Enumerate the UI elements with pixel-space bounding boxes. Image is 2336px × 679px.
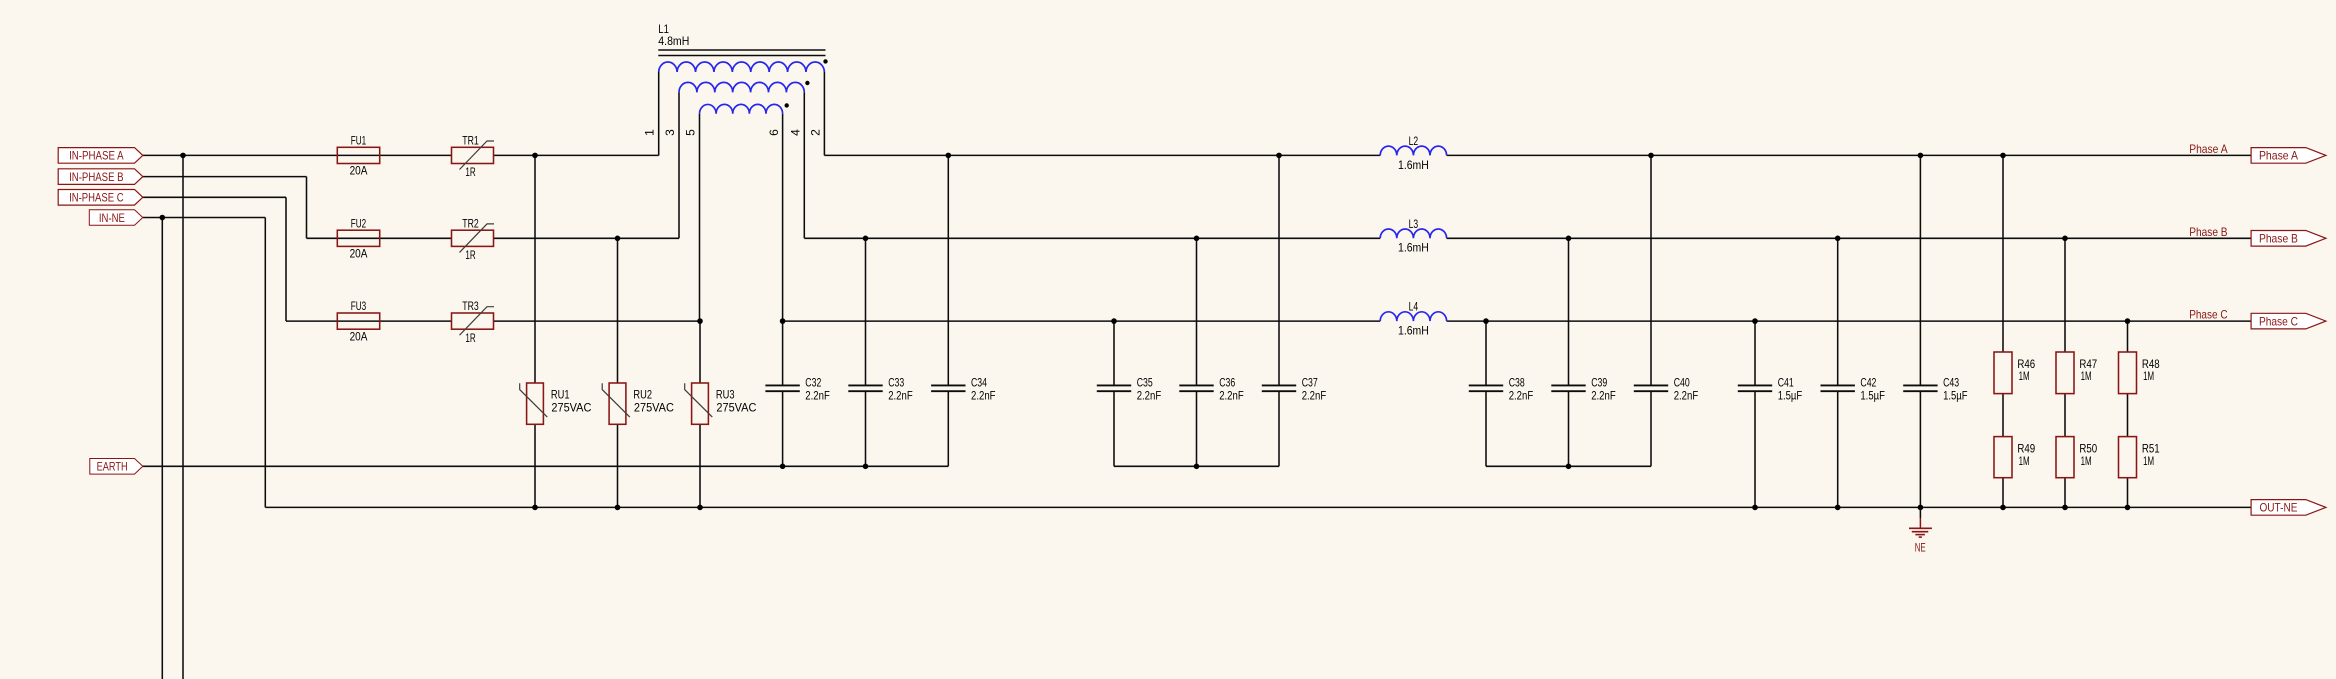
wire C36 bottom lead [1196,391,1198,466]
junction C39/star bus [1566,464,1572,470]
svg-text:2.2nF: 2.2nF [1509,388,1534,402]
L1 polarity dot winding 1-2 [823,59,827,63]
svg-text:C38: C38 [1509,376,1525,390]
wire IN-PHASE B vertical drop [306,177,308,239]
junction L1 pin5/RU3/row C [697,318,703,324]
svg-text:C43: C43 [1943,376,1959,390]
fuse FU1 20A [337,147,379,163]
wire off-sheet vertical from IN-NE junction [161,218,163,679]
wire L1 pin 4 to L3 (row B right) [804,237,1380,239]
svg-text:1R: 1R [465,331,476,345]
wire C42 bottom lead [1837,391,1839,507]
wire L1 pin 2 lead [823,72,825,155]
junction row A off-sheet tap [180,153,186,159]
svg-text:IN-PHASE C: IN-PHASE C [69,191,124,205]
svg-text:Phase C: Phase C [2189,308,2228,322]
svg-text:Phase C: Phase C [2259,314,2298,328]
L1 core line 2 [658,55,825,57]
svg-text:4: 4 [788,129,802,136]
L1 winding 1-2 [659,62,825,72]
wire L1 pin 5 lead [699,114,701,321]
svg-text:C42: C42 [1860,376,1876,390]
svg-text:20A: 20A [350,164,368,178]
wire RU1 top lead [534,155,536,383]
wire TR3 to L1 pin 5 node (row C) [494,320,701,322]
wire R49 bottom lead [2002,478,2004,508]
svg-text:FU2: FU2 [351,216,367,230]
junction C42/neutral bus [1835,505,1841,511]
wire C39 top lead [1568,238,1570,385]
inductor L1 common-mode choke 4.8mH [643,22,828,136]
junction R49/neutral bus [2000,505,2006,511]
svg-text:2.2nF: 2.2nF [1302,388,1327,402]
capacitor C33 2.2nF [848,384,882,386]
wire C37 bottom lead [1278,391,1280,466]
junction R51/neutral bus [2125,505,2131,511]
capacitor C32 2.2nF [765,384,799,386]
wire C35 top lead [1113,321,1115,385]
wire R48 to R51 link [2127,394,2129,437]
wire C40 bottom lead [1650,391,1652,466]
junction C39/row B [1566,236,1572,242]
thermistor TR2 1R [452,230,494,246]
svg-text:IN-PHASE A: IN-PHASE A [69,149,124,163]
svg-text:1M: 1M [2019,454,2030,468]
svg-text:1.6mH: 1.6mH [1398,158,1429,172]
resistor R51 1M [2119,437,2137,478]
svg-text:2.2nF: 2.2nF [1674,388,1699,402]
svg-text:1M: 1M [2081,454,2092,468]
capacitor C36 2.2nF [1179,384,1213,386]
svg-text:FU1: FU1 [351,133,367,147]
svg-text:OUT-NE: OUT-NE [2259,501,2297,515]
junction C36/star bus [1194,464,1200,470]
varistor RU2 275VAC [609,383,626,424]
ground NE (earth symbol) [1919,507,1921,518]
svg-text:RU1: RU1 [551,387,570,401]
L1 winding 5-6 [700,104,783,113]
svg-text:1.5µF: 1.5µF [1860,388,1885,402]
junction R46/row A [2000,153,2006,159]
svg-text:C39: C39 [1591,376,1607,390]
svg-text:C37: C37 [1302,376,1318,390]
wire L1 pin 3 lead [678,92,680,238]
resistor R46 1M [1994,352,2012,394]
svg-text:C32: C32 [805,376,821,390]
svg-text:C33: C33 [888,376,904,390]
junction C34/row A [946,153,952,159]
wire C33 bottom lead [865,391,867,466]
hierarchical label IN-PHASE A [58,148,143,164]
svg-text:1.6mH: 1.6mH [1398,241,1429,255]
junction RU1/row A [532,153,538,159]
RU1 diagonal stroke [520,383,548,417]
wire star bus C35-C37 [1114,465,1279,467]
hierarchical label Phase A output [2251,148,2326,164]
wire off-sheet vertical from row A junction [182,155,184,679]
wire C43 bottom lead [1919,391,1921,507]
wire C32 top lead [782,321,784,385]
svg-text:2: 2 [808,129,822,136]
svg-text:L2: L2 [1409,134,1419,148]
inductor L4 1.6mH [1380,312,1446,321]
resistor R47 1M [2056,352,2074,394]
wire R50 bottom lead [2064,478,2066,508]
junction R48/row C [2125,318,2131,324]
junction C32/earth bus [780,464,786,470]
wire C34 top lead [947,155,949,385]
wire C41 bottom lead [1754,391,1756,507]
wire C41 top lead [1754,321,1756,385]
wire L2 to Phase A label (row A far right) [1447,154,2252,156]
svg-text:C40: C40 [1674,376,1690,390]
wire C39 bottom lead [1568,391,1570,466]
junction L1 pin6/C32/row C [780,318,786,324]
L1 polarity dot winding 3-4 [805,81,809,85]
thermistor TR1 1R [452,147,494,163]
wire C38 top lead [1485,321,1487,385]
capacitor C41 1.5µF [1738,384,1772,386]
resistor R48 1M [2119,352,2137,394]
L1 core line 1 [658,49,825,51]
svg-text:20A: 20A [350,329,368,343]
fuse FU2 20A [337,230,379,246]
svg-text:C34: C34 [971,376,987,390]
svg-text:2.2nF: 2.2nF [1219,388,1244,402]
wire R47 to R50 link [2064,394,2066,437]
junction RU2/neutral bus [615,505,621,511]
wire IN-PHASE A to FU1/TR1 (row A left) [143,154,452,156]
svg-text:Phase A: Phase A [2259,149,2298,163]
inductor L3 1.6mH [1380,229,1446,238]
wire RU2 bottom lead [617,424,619,507]
svg-text:L4: L4 [1409,300,1419,314]
svg-text:2.2nF: 2.2nF [1591,388,1616,402]
wire R46 to R49 link [2002,394,2004,437]
capacitor C40 2.2nF [1634,384,1668,386]
wire L4 to Phase C label (row C far right) [1447,320,2252,322]
TR1 diagonal stroke [460,141,495,170]
wire RU3 top lead [699,321,701,383]
resistor R49 1M [1994,437,2012,478]
wire C38 bottom lead [1485,391,1487,466]
junction C33/row B [863,236,869,242]
wire C33 top lead [865,238,867,385]
wire R47 top lead [2064,238,2066,352]
capacitor C39 2.2nF [1551,384,1585,386]
wire L1 pin 1 lead [658,72,660,155]
wire to FU2/TR2 (row B left) [307,237,452,239]
capacitor C42 1.5µF [1821,384,1855,386]
wire RU1 bottom lead [534,424,536,507]
wire L1 pin 4 lead [803,92,805,238]
svg-text:RU3: RU3 [716,387,735,401]
wire C32 bottom lead [782,391,784,466]
svg-text:275VAC: 275VAC [551,400,591,414]
hierarchical label IN-NE [89,210,143,226]
hierarchical label IN-PHASE B [58,169,143,185]
junction IN-NE off-sheet tap [160,215,166,221]
svg-text:6: 6 [767,129,781,136]
wire C37 top lead [1278,155,1280,385]
RU3 diagonal stroke [685,383,713,417]
wire C35 bottom lead [1113,391,1115,466]
svg-text:1R: 1R [465,165,476,179]
wire R51 bottom lead [2127,478,2129,508]
capacitor C37 2.2nF [1262,384,1296,386]
wire R48 top lead [2127,321,2129,352]
svg-text:C35: C35 [1137,376,1153,390]
wire L1 pin 6 node to L4 (row C right) [783,320,1381,322]
svg-text:1.5µF: 1.5µF [1778,388,1803,402]
wire C40 top lead [1650,155,1652,385]
svg-text:EARTH: EARTH [97,460,128,474]
junction C42/row B [1835,236,1841,242]
wire TR1 to L1 pin 1 (row A) [494,154,659,156]
wire L3 to Phase B label (row B far right) [1447,237,2252,239]
wire C42 top lead [1837,238,1839,385]
svg-text:NE: NE [1915,541,1926,555]
hierarchical label Phase C output [2251,313,2326,329]
svg-text:20A: 20A [350,247,368,261]
TR2 diagonal stroke [460,224,495,253]
resistor R50 1M [2056,437,2074,478]
junction C35/row C [1111,318,1117,324]
wire IN-PHASE C vertical drop [285,197,287,321]
svg-text:275VAC: 275VAC [716,400,756,414]
junction C40/row A [1648,153,1654,159]
capacitor C35 2.2nF [1097,384,1131,386]
junction R50/neutral bus [2062,505,2068,511]
wire to FU3/TR3 (row C left) [286,320,452,322]
svg-text:Phase B: Phase B [2189,225,2227,239]
svg-text:275VAC: 275VAC [634,400,674,414]
svg-text:TR2: TR2 [462,216,479,230]
capacitor C34 2.2nF [931,384,965,386]
capacitor C43 1.5µF [1903,384,1937,386]
capacitor C38 2.2nF [1469,384,1503,386]
svg-text:1.6mH: 1.6mH [1398,324,1429,338]
wire IN-NE vertical drop to neutral bus [264,218,266,508]
svg-text:Phase B: Phase B [2259,232,2298,246]
svg-text:IN-PHASE B: IN-PHASE B [69,170,124,184]
svg-text:2.2nF: 2.2nF [805,388,830,402]
svg-text:TR1: TR1 [462,133,479,147]
thermistor TR3 1R [452,313,494,329]
svg-text:TR3: TR3 [462,299,479,313]
wire C36 top lead [1196,238,1198,385]
wire IN-PHASE B horizontal stub [143,176,307,178]
wire TR2 to L1 pin 3 (row B) [494,237,680,239]
junction C33/earth bus [863,464,869,470]
junction C43/row A [1918,153,1924,159]
junction RU3/neutral bus [697,505,703,511]
wire C34 bottom lead [947,391,949,466]
wire neutral bus to OUT-NE label [265,506,2251,508]
svg-text:2.2nF: 2.2nF [1137,388,1162,402]
wire RU2 top lead [617,238,619,383]
junction R47/row B [2062,236,2068,242]
wire C43 top lead [1919,155,1921,385]
svg-text:IN-NE: IN-NE [99,211,125,225]
L1 winding 3-4 [679,82,804,92]
svg-text:1: 1 [643,129,657,136]
svg-text:C41: C41 [1778,376,1794,390]
hierarchical label Phase B output [2251,231,2326,247]
wire RU3 bottom lead [699,424,701,507]
junction RU2/row B [615,236,621,242]
svg-text:L3: L3 [1409,217,1419,231]
hierarchical label IN-PHASE C [58,190,143,206]
wire IN-PHASE C horizontal stub [143,196,286,198]
svg-text:5: 5 [684,129,698,136]
svg-text:1M: 1M [2081,369,2092,383]
junction C41/row C [1752,318,1758,324]
junction C43-NE/neutral bus [1918,505,1924,511]
wire L1 pin 6 lead [782,114,784,321]
junction C37/row A [1276,153,1282,159]
svg-text:C36: C36 [1219,376,1235,390]
junction C36/row B [1194,236,1200,242]
wire EARTH bus to C34 [143,465,949,467]
TR3 diagonal stroke [460,307,495,336]
junction RU1/neutral bus [532,505,538,511]
wire R46 top lead [2002,155,2004,352]
RU2 diagonal stroke [602,383,630,417]
svg-text:1.5µF: 1.5µF [1943,388,1968,402]
svg-text:RU2: RU2 [633,387,652,401]
svg-text:1R: 1R [465,248,476,262]
svg-text:2.2nF: 2.2nF [888,388,913,402]
varistor RU3 275VAC [692,383,709,424]
junction C38/row C [1483,318,1489,324]
svg-text:1M: 1M [2019,369,2030,383]
wire L1 pin 2 to L2 (row A right) [824,154,1380,156]
hierarchical label OUT-NE output [2251,500,2326,516]
varistor RU1 275VAC [527,383,544,424]
fuse FU3 20A [337,313,379,329]
svg-text:Phase A: Phase A [2189,142,2227,156]
junction C41/neutral bus [1752,505,1758,511]
svg-text:1M: 1M [2143,369,2154,383]
svg-text:4.8mH: 4.8mH [658,34,689,48]
svg-text:1M: 1M [2143,454,2154,468]
L1 polarity dot winding 5-6 [785,103,789,107]
hierarchical label EARTH [90,459,143,475]
wire star bus C38-C40 [1486,465,1651,467]
svg-text:3: 3 [663,129,677,136]
svg-text:FU3: FU3 [351,299,367,313]
wire IN-NE horizontal stub [143,217,265,219]
inductor L2 1.6mH [1380,146,1446,155]
svg-text:2.2nF: 2.2nF [971,388,996,402]
